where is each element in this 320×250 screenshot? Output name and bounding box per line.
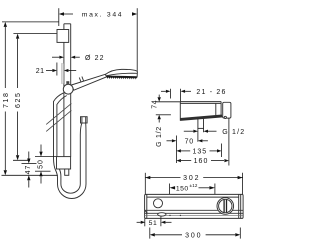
shower rail tube [64,24,71,157]
svg-text:±12: ±12 [190,183,198,188]
dimension max. 344 (top horizontal) [59,8,137,71]
svg-text:150: 150 [176,185,189,192]
rail bottom stop block [2,157,71,176]
dimension 150 +/-12 [170,183,215,194]
label G 1/2 with arrows (outlet) [184,129,246,136]
dimension 302 [145,173,242,195]
svg-text:21 - 26: 21 - 26 [196,89,226,96]
svg-text:21: 21 [36,68,45,75]
dimension 51 [137,216,172,227]
dimension diameter 22 (rail) [52,55,105,62]
dimension 135 [176,144,221,158]
thermostat body (front) [145,194,244,218]
dimension 50 (rail bottom) [38,145,45,184]
svg-text:50: 50 [38,159,45,169]
hand shower handle [71,74,106,90]
holder ball joint [63,84,73,94]
svg-text:718: 718 [3,91,10,107]
svg-text:G 1/2: G 1/2 [156,126,163,147]
hand shower head [105,69,137,79]
svg-text:74: 74 [152,100,159,109]
outlet nut (side, G 1/2) [198,117,204,142]
dimension 21 (at slider) [36,63,76,76]
left button circle [154,199,163,208]
dimension 625 (left vertical) [13,34,57,161]
svg-text:47: 47 [25,165,32,175]
dimension 70 [167,136,208,164]
valve body (side) [180,89,222,121]
thermostat knob (front) [217,198,234,215]
svg-text:70: 70 [185,138,194,145]
dimension 300 [150,228,241,240]
shower hose (left run and U-turn) [54,93,87,199]
break marks across rail and hose [46,103,71,131]
slider (gray) on rail [61,64,63,84]
svg-text:160: 160 [194,158,209,165]
holder clamp (dark) [66,81,69,84]
wall bracket block at rail top [57,30,69,43]
hose outlet oval [158,213,166,216]
svg-text:max. 344: max. 344 [82,12,124,19]
dimension 718 (left vertical) [2,22,59,175]
svg-text:Ø 22: Ø 22 [85,55,105,62]
svg-text:135: 135 [192,149,207,156]
svg-text:302: 302 [183,175,200,182]
dimension 160 [176,118,229,165]
dimension 74 [152,95,181,123]
dimension 47 (rail bottom) [22,152,37,188]
svg-text:51: 51 [149,220,158,227]
wall line [169,89,171,99]
dimension 21 - 26 [161,89,227,96]
hose end nut [81,117,88,123]
svg-text:300: 300 [185,232,202,239]
valve knob (side) [223,102,231,118]
svg-text:G 1/2: G 1/2 [222,129,245,136]
svg-text:625: 625 [15,91,22,107]
